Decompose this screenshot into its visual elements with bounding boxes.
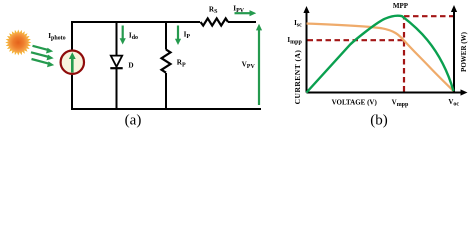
svg-text:(a): (a) [125, 112, 142, 128]
svg-text:CURRENT (A): CURRENT (A) [293, 50, 302, 105]
svg-text:VOLTAGE (V): VOLTAGE (V) [332, 98, 378, 106]
svg-text:D: D [128, 61, 133, 69]
svg-text:MPP: MPP [393, 2, 409, 10]
svg-text:POWER (W): POWER (W) [460, 31, 468, 72]
svg-text:(b): (b) [370, 112, 388, 128]
